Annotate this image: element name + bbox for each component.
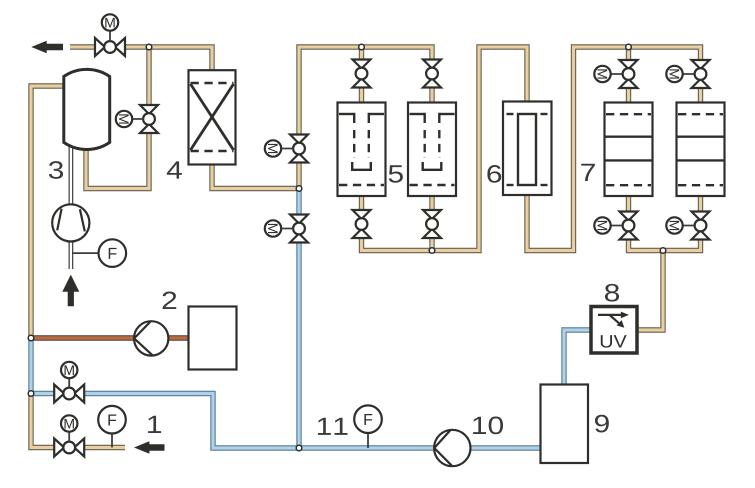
label 7: [581, 164, 595, 181]
wire: blue drop from node D to bottom main: [296, 189, 301, 449]
M actuator of valve B: [265, 220, 294, 236]
product out arrow top-left: [31, 41, 63, 53]
label 2: [163, 292, 177, 309]
label 6: [487, 165, 501, 183]
M actuator of inlet valve: [61, 415, 77, 442]
label 8: [605, 284, 619, 302]
wire: tan riser x299 and top main to unit5 right column: [299, 47, 432, 189]
wire: unit5 right column bottom to manifold: [429, 196, 434, 251]
motor valve B on blue drop x299: [290, 215, 308, 243]
label 3: [49, 161, 63, 179]
tank 3 vessel: [64, 69, 110, 149]
pump 3 under tank3: [52, 204, 89, 241]
M actuator of valve V2: [116, 111, 144, 127]
node C blue branch: [28, 391, 34, 397]
wire: left vertical blue between node B and node C: [28, 338, 33, 394]
M actuator unit7 top-right: [666, 66, 695, 82]
node unit7 top branch: [626, 44, 632, 50]
node on bottom main: [296, 445, 302, 451]
motor valve on product outlet: [95, 38, 125, 56]
node unit5 top branch: [359, 44, 365, 50]
M actuator unit7 bottom-right: [666, 217, 695, 233]
motor valve V2 on riser x149: [140, 105, 158, 133]
M actuator unit7 top-left: [594, 66, 623, 82]
wire: unit5 bottom manifold and riser to unit6 top: [362, 47, 528, 251]
UV unit 8: [591, 307, 637, 354]
node unit5 manifold: [429, 248, 435, 254]
unit 5 left column: [338, 103, 386, 197]
unit 7 right column: [677, 103, 725, 197]
motor valve A on tan riser x299: [290, 135, 308, 163]
node D mixing point: [296, 186, 302, 192]
up arrow below pump3: [62, 275, 79, 307]
unit 7 left column: [605, 103, 653, 197]
wire: tan inlet line from node C to inlet arrow: [31, 394, 125, 448]
motor valve unit7 bottom-left: [620, 212, 638, 240]
wire: tank3 left feed / left vertical tan down to node B: [31, 86, 64, 338]
unit 5 right column: [408, 103, 456, 197]
wire: blue main from node C to tank9: [31, 394, 541, 449]
motor valve unit7 top-left: [620, 60, 638, 88]
label 5: [389, 165, 403, 182]
node A on top main: [146, 44, 152, 50]
wire: unit7 bottom manifold: [629, 196, 701, 251]
wire: node G drop to UV right side: [638, 251, 663, 331]
wire: unit6 outlet riser and unit7 top main: [527, 47, 701, 251]
wire: product outlet top-left into unit4 top: [70, 47, 212, 70]
unit 4 box with X cross: [189, 70, 236, 164]
tank 9: [541, 385, 589, 464]
F gauge on tan inlet: [98, 406, 126, 448]
wire: branch down to unit7 left column: [626, 47, 631, 103]
M actuator of valve A: [265, 140, 294, 156]
wire: riser from node A through valve V2 to tank3 bottom: [86, 47, 149, 189]
motor valve unit7 bottom-right: [692, 212, 710, 240]
motor valve unit7 top-right: [692, 60, 710, 88]
valve below unit5 left column: [353, 210, 371, 238]
node G unit7 manifold: [660, 248, 666, 254]
node B brown branch: [28, 335, 34, 341]
valve below unit5 right column: [423, 210, 441, 238]
wire: unit4 bottom outlet to node D: [212, 165, 299, 189]
F gauge on bottom main: [354, 405, 382, 448]
M actuator unit7 bottom-left: [594, 217, 623, 233]
inlet arrow bottom-left: [134, 441, 165, 453]
motor valve on blue branch line: [54, 385, 84, 403]
label 4: [167, 161, 182, 178]
motor valve on tan inlet line: [54, 439, 84, 457]
F gauge beside pump3: [72, 239, 126, 267]
pump 2: [134, 321, 168, 355]
box 2: [189, 307, 237, 370]
M actuator of blue branch valve: [61, 362, 77, 388]
valve above unit5 right column: [423, 60, 441, 88]
wire: branch down to unit5 left column: [359, 47, 364, 103]
wire: brown line node B to pump2 to box2: [31, 335, 189, 341]
label 1: [148, 416, 161, 433]
valve above unit5 left column: [353, 60, 371, 88]
label 9: [595, 415, 609, 433]
label 11: [318, 418, 348, 435]
label 10: [473, 417, 503, 435]
unit 6 box: [503, 102, 552, 196]
wire: thin suction line tank3 through pump3: [69, 145, 74, 269]
wire: UV outlet to tank9 top: [564, 330, 590, 385]
M actuator of outlet valve: [102, 14, 118, 41]
pump 10: [434, 430, 470, 466]
